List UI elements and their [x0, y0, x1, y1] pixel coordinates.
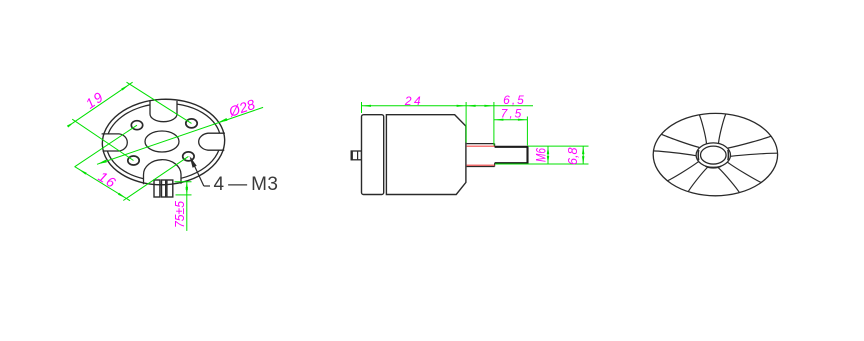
- 6,8 dimension: [582, 146, 584, 164]
- dimension line 16: [75, 167, 130, 201]
- rotor outer rim ellipse: [653, 113, 777, 195]
- dimension 75+-5 vertical line: [186, 182, 188, 231]
- motor back plate: [362, 115, 384, 195]
- rotor spoke 1 edge: [699, 115, 706, 144]
- wire : dim 19 extension to lower-left hole: [72, 119, 133, 160]
- M6 dimension: [528, 145, 589, 147]
- svg-text:75±5: 75±5: [172, 200, 187, 228]
- svg-text:4—M3: 4—M3: [214, 174, 278, 195]
- rotor spoke 5 edge: [653, 151, 695, 156]
- svg-text:6,5: 6,5: [503, 93, 526, 107]
- svg-text:6,8: 6,8: [565, 147, 580, 165]
- motor body: [386, 115, 466, 195]
- red thread lines: [467, 145, 495, 147]
- wire : dim 16 extension to upper-left hole: [75, 125, 137, 167]
- shaft stub on left end: [351, 151, 361, 160]
- svg-text:24: 24: [404, 94, 423, 108]
- svg-text:7,5: 7,5: [501, 107, 524, 121]
- rotor hub inner ring: [701, 146, 727, 164]
- left notch cutout: [100, 134, 127, 151]
- svg-text:M6: M6: [533, 148, 549, 162]
- bottom notch cutout: [143, 160, 181, 186]
- rotor spoke 2 edge: [731, 153, 778, 156]
- hub center hole: [145, 131, 179, 152]
- rotor spoke 3 edge: [718, 167, 740, 192]
- rotor spoke 2 edge: [728, 136, 771, 148]
- rotor hub left side arc: [697, 150, 700, 160]
- rotor hub collar bottom arc: [705, 166, 721, 168]
- plate inner rim ellipse: [104, 101, 222, 184]
- dimension line 24 / 6,5: [362, 105, 534, 107]
- wire : dim 19 extension to upper-right hole: [127, 82, 192, 123]
- dim 24 extension lines: [361, 102, 363, 113]
- rotor spoke 5 edge: [661, 134, 699, 147]
- shaft M6 threaded end (bold): [495, 147, 528, 163]
- wire : dim 16 extension to lower-right hole: [123, 156, 188, 200]
- rotor spoke 4 edge: [667, 162, 698, 181]
- motor wires / pins (3): [154, 180, 160, 197]
- rotor hub outer ring: [696, 143, 730, 167]
- rotor spoke 1 edge: [719, 114, 726, 143]
- dimension line 7,5: [494, 119, 528, 121]
- rotor spoke 3 edge: [728, 162, 762, 182]
- leader arrow for 4-M3: [204, 185, 210, 187]
- dimension line diameter 28: [97, 107, 263, 164]
- shaft thin section: [467, 143, 495, 145]
- right notch cutout: [199, 133, 227, 150]
- top notch cutout: [150, 100, 177, 122]
- rotor spoke 4 edge: [688, 167, 708, 192]
- dimension line 19: [73, 82, 133, 123]
- plate outer ellipse: [100, 96, 226, 187]
- rotor hub right side arc: [727, 150, 730, 160]
- M3 mounting holes (4): [131, 121, 142, 130]
